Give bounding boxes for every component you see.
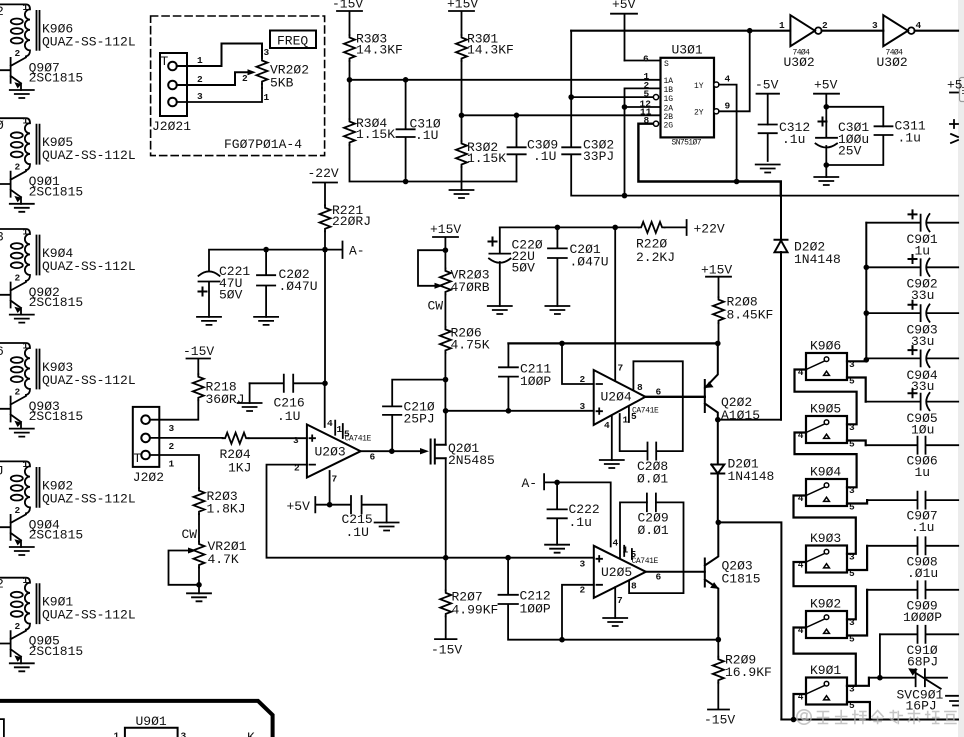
svg-text:4: 4 [725,74,731,85]
ground under U205 [603,618,627,626]
VR203 wiper loop to top [418,250,445,286]
svg-text:1u: 1u [915,243,931,258]
node dot Q203 collector [716,520,722,526]
capacitor C906 1u [866,437,959,481]
node dot pin7/+5V [327,502,333,508]
bubble 1G [653,95,658,100]
transistor Q902 2SC1815 [0,281,83,315]
svg-text:3: 3 [264,47,270,58]
long bus from C302/1B net to right edge [625,195,959,197]
capacitor C208 0.01 labels [637,459,668,487]
resistor R302 1.15K [456,140,506,182]
svg-text:2: 2 [294,463,300,474]
resistor R304 1.15K [344,80,395,145]
wire U205 output to Q203 [646,571,705,573]
relay coil K906 [0,2,136,59]
ground under Q901 [10,204,34,212]
wire inverter2 out to edge [915,30,958,32]
UI scrollbar strip right edge [958,0,964,737]
resistor R218 360RJ [193,374,245,407]
partial electrolytic cap at right edge [950,120,958,143]
svg-text:2: 2 [15,273,21,284]
wire pin7 vertical U204 [614,227,616,381]
svg-text:14.3KF: 14.3KF [356,43,403,58]
ground under C222 [545,545,569,553]
svg-text:.Ø47U: .Ø47U [570,255,609,270]
node dot K901 pin4 on bus [791,717,797,723]
wire S pin row [625,60,661,62]
svg-text:1: 1 [23,2,29,13]
svg-text:K9Ø3: K9Ø3 [810,531,841,546]
svg-text:T: T [161,54,169,69]
svg-text:2: 2 [580,585,586,596]
svg-text:K9Ø2: K9Ø2 [810,596,841,611]
capacitor C222 .1u [548,482,600,544]
svg-text:3: 3 [872,20,878,31]
node dot C222 top [554,480,560,486]
node dot C212 top [505,555,511,561]
svg-text:4: 4 [613,538,619,549]
svg-text:U2Ø4: U2Ø4 [601,390,632,405]
svg-text:2N5485: 2N5485 [448,453,495,468]
svg-text:J: J [0,464,4,479]
svg-text:J2Ø2: J2Ø2 [133,470,164,485]
op-amp U203 CA741E [307,383,376,484]
capacitor C904 33u electrolytic [866,346,958,394]
transistor Q904 2SC1815 [0,513,83,547]
wire U204 output to Q202 [645,396,704,398]
svg-text:3: 3 [197,91,203,102]
op-amp U204 CA741E [580,370,646,425]
A- tap second [522,474,558,491]
svg-text:1: 1 [114,731,120,737]
wire R218 to J202 pin3 [150,400,198,420]
transistor Q202 A1015 [705,343,760,423]
power -15V under R209 [704,683,735,728]
svg-text:.1U: .1U [346,525,369,540]
bottom bus wire [781,719,958,721]
wire 2B bus [462,114,661,116]
connector J2021 [152,53,203,134]
relay contact K906 [806,353,847,380]
transistor Q907 2SC1815 [0,56,83,90]
bubble 2Y output [714,109,719,114]
capacitor C910 68PJ [880,626,958,670]
ground under C301 [814,165,838,185]
wire R206 bottom to C210 node [444,353,446,411]
svg-text:1: 1 [23,227,29,238]
svg-text:QUAZ-SS-112L: QUAZ-SS-112L [42,34,136,49]
IC U901 box [125,714,178,737]
power +5V top [611,0,637,61]
wire K906 pin4 to K905 pin3 [795,370,857,425]
wire K906 pin5 to C905 [847,378,866,402]
wire 2G row [638,124,780,196]
wire U203 -in feedback loop [267,465,446,558]
capacitor C907 .1u [867,492,958,535]
svg-text:1: 1 [23,459,29,470]
bubble 1Y output [714,82,719,87]
svg-text:J2Ø21: J2Ø21 [152,119,191,134]
wire +22V rail top bus [500,226,639,228]
partial +5V symbol at right edge [947,78,963,93]
svg-text:1Øu: 1Øu [911,422,934,437]
IC U301 SN75107 [640,43,715,148]
ground under R302 [450,182,474,199]
svg-text:SN751Ø7: SN751Ø7 [672,139,702,148]
wire U205 pin7 to ground [614,587,616,618]
svg-text:QUAZ-SS-112L: QUAZ-SS-112L [42,373,136,388]
svg-text:5KB: 5KB [270,76,294,91]
node dot C210 bottom [389,448,395,454]
capacitor C210 25PJ [383,380,446,452]
relay contact K905 [806,416,847,443]
svg-text:2: 2 [822,20,828,31]
svg-text:2: 2 [197,74,203,85]
svg-text:2SC1815: 2SC1815 [29,409,84,424]
resistor R204 1KJ [220,433,252,476]
svg-text:1: 1 [169,459,175,470]
svg-text:1: 1 [337,424,343,435]
wire K906 pin3 to cap bus [847,358,866,361]
ground under C312 [756,165,780,173]
node dot 2G/outputs junction [734,179,740,185]
relay coil K902 [0,459,136,516]
ground under C215 [375,523,399,531]
wire J2021 pin2 to VR202 wiper [177,72,248,85]
svg-text:+5: +5 [947,78,963,93]
node dot 2A [622,104,628,110]
svg-text:Ø.Ø1: Ø.Ø1 [638,523,669,538]
svg-text:33u: 33u [911,334,934,349]
svg-text:1.15K: 1.15K [356,127,395,142]
svg-text:2G: 2G [664,122,674,131]
svg-text:25PJ: 25PJ [404,412,435,427]
node dot C310 top [403,77,409,83]
svg-text:+5V: +5V [287,499,311,514]
node dot R206/C210 [443,377,449,383]
dashed boundary box FG07P01A-4 [151,16,325,156]
svg-text:33u: 33u [911,288,934,303]
potentiometer VR201 4.7K [194,539,247,585]
svg-text:1B: 1B [664,86,674,95]
svg-text:2: 2 [0,4,4,19]
node dot C310 bottom [403,179,409,185]
node dot Q202 emitter [715,417,721,423]
wire drain row to U204 +in [446,410,594,412]
transistor Q905 2SC1815 [0,630,83,664]
bubble 2G [653,121,658,126]
svg-text:.1U: .1U [415,128,438,143]
wire top line 1G to inverters [571,30,790,32]
JFET Q201 2N5485 [431,440,495,469]
ground under Q905 [10,663,34,671]
svg-text:6: 6 [656,572,662,583]
node dot C301 top [824,104,830,110]
svg-text:1N4148: 1N4148 [794,252,841,267]
resistor R221 220RJ [320,203,372,231]
svg-text:-22V: -22V [308,166,339,181]
power -5V [755,78,779,125]
svg-text:3: 3 [293,435,299,446]
svg-text:QUAZ-SS-112L: QUAZ-SS-112L [42,491,136,506]
inverter U302 7404 second [872,15,922,70]
C209 loop pin1 to pin8 [620,494,684,594]
node dot VR201 bottom [196,582,202,588]
wire 1A bus to U301 [350,79,661,81]
svg-text:.1u: .1u [569,515,592,530]
svg-text:2SC1815: 2SC1815 [29,528,84,543]
wire A- to U205 pin4 [557,482,611,546]
svg-text:6: 6 [0,344,4,359]
svg-text:.1u: .1u [911,520,934,535]
svg-text:CA741E: CA741E [632,557,659,566]
wire Q203 collector bus right [718,522,781,719]
svg-text:2SC1815: 2SC1815 [29,71,84,86]
power +15V (VR203) [430,222,461,250]
svg-text:1: 1 [779,20,785,31]
transistor Q903 2SC1815 [0,395,83,429]
wire R221 to A- node [324,231,326,249]
potentiometer VR202 5KB [242,47,309,103]
capacitor C211 100P [499,343,551,410]
ground under Q904 [10,547,34,555]
svg-text:2: 2 [242,73,248,84]
node dot C212/U205 -in join [559,637,565,643]
ground under C216 left [238,383,262,411]
capacitor C908 .01u [867,537,958,581]
wire emitter bus [562,639,718,641]
svg-text:1ØØØP: 1ØØØP [903,610,942,625]
wire K901 pin3 to SVC row [847,678,869,686]
svg-text:+22V: +22V [694,222,725,237]
svg-text:1Y: 1Y [694,82,704,91]
wire A- bus left to C221 [209,250,325,271]
relay coil K905 [0,116,136,173]
node dot R208/Q202 collector [715,341,721,347]
wire 1B row [625,88,661,195]
+22V tap [665,220,725,237]
svg-text:CW: CW [428,299,444,314]
node dot C309 top on 2B bus [514,113,520,119]
svg-text:4.75K: 4.75K [451,338,490,353]
wire K904 pin4 to K903 pin3 [794,496,856,554]
relay coil K901 [0,575,136,632]
ground under Q903 [10,429,34,437]
wire Q201 drain up [445,411,447,445]
relay contact K902 [806,611,847,638]
watermark juejin community [797,710,956,724]
svg-text:7: 7 [332,474,338,485]
svg-text:QUAZ-SS-112L: QUAZ-SS-112L [42,608,136,623]
wire U204 -in to bus [562,343,594,384]
relay contact K901 [806,678,847,705]
capacitor C220 22U 50V electrolytic [489,227,543,306]
svg-text:U3Ø1: U3Ø1 [672,43,703,58]
wire inverter1 out to inverter2 in [822,30,884,32]
node dot 1B/2A net to bus [622,193,628,199]
svg-text:+15V: +15V [701,263,732,278]
resistor R220 2.2KJ [636,222,675,265]
svg-text:K: K [247,730,255,737]
wire J202 pin1 to R203 [150,455,199,488]
capacitor C903 33u electrolytic [866,301,958,349]
capacitor C902 33u electrolytic [866,255,958,303]
capacitor C201 .047U [548,227,609,306]
svg-text:+5V: +5V [612,0,636,12]
svg-text:68PJ: 68PJ [907,654,938,669]
svg-text:2Y: 2Y [694,109,704,118]
wiper arrowhead VR201 [188,548,197,554]
arrowhead into Q201 gate [420,448,429,454]
svg-text:2: 2 [15,48,21,59]
wire 1Y to 2Y join [719,85,737,112]
wire R204 to U203 +in [249,437,307,439]
svg-text:A-: A- [522,476,538,491]
svg-text:CA741E: CA741E [632,407,659,416]
svg-text:K9Ø4: K9Ø4 [810,464,841,479]
power +15V top [447,0,478,35]
resistor R209 16.9KF [713,640,772,683]
resistor R208 8.45KF [713,295,773,324]
svg-text:1ØØP: 1ØØP [520,374,551,389]
wire K903 pin4 to K902 pin3 [794,562,856,619]
svg-text:K9Ø5: K9Ø5 [810,401,841,416]
svg-text:8: 8 [637,382,643,393]
resistor R203 1.8KJ [194,488,246,516]
capacitor C221 47U 50V electrolytic [199,264,251,317]
svg-text:1: 1 [23,116,29,127]
svg-text:47ØRB: 47ØRB [451,280,490,295]
capacitor C212 100P [499,558,563,640]
svg-text:14.3KF: 14.3KF [467,43,514,58]
node dot inverter input / 1Y2Y [747,28,753,34]
inverter U302 7404 first [779,15,828,70]
wire U205 -in loop [562,585,594,640]
wire A- rail down [324,250,326,384]
svg-text:K9Ø6: K9Ø6 [810,338,841,353]
thick border of lower block [0,701,273,737]
svg-text:Ø.Ø1: Ø.Ø1 [637,472,668,487]
node dot Q201 drain row [443,408,449,414]
svg-text:1G: 1G [664,95,674,104]
svg-text:+15V: +15V [447,0,478,12]
svg-text:S: S [664,60,669,69]
svg-text:1.15K: 1.15K [467,151,506,166]
node dot C201 top [555,225,561,231]
UI scrollbar button [960,78,964,102]
wire K902 pin5 to C909 [847,590,867,636]
power -15V under R207 [431,616,462,657]
svg-text:.1u: .1u [782,132,805,147]
svg-text:22ØRJ: 22ØRJ [332,214,371,229]
svg-text:6: 6 [643,54,649,65]
svg-text:1u: 1u [915,465,931,480]
U204 pin8 C208 loop [620,361,683,459]
svg-text:33u: 33u [911,379,934,394]
node dot R303/R304 junction [347,77,353,83]
fragment box bottom-left corner [0,719,4,737]
capacitor C905 10u electrolytic [866,389,959,437]
svg-text:2SC1815: 2SC1815 [29,184,84,199]
wire 2Y up to top line [719,31,750,112]
svg-text:QUAZ-SS-112L: QUAZ-SS-112L [42,259,136,274]
svg-text:8: 8 [631,581,637,592]
resistor R206 4.75K [440,326,490,353]
node dot VR203 top [443,247,449,253]
node dot -in bus [559,341,565,347]
wire K904 pin5 to C907 [847,500,867,503]
node dot Q203 emitter bus [716,637,722,643]
svg-text:-15V: -15V [704,713,735,728]
wire R303 to 1A bus [349,61,351,80]
svg-text:3: 3 [181,731,187,737]
node dot Q201 source on bus [443,555,449,561]
wire K901 pin4 to bottom bus [794,694,807,720]
svg-text:1: 1 [197,55,203,66]
svg-text:QUAZ-SS-112L: QUAZ-SS-112L [42,148,136,163]
wire 1Y2Y chain down to 2G bus [736,111,738,181]
svg-text:6: 6 [656,387,662,398]
wire U204 pin4 to ground [611,415,613,460]
diode D202 1N4148 [775,196,841,420]
svg-text:1N4148: 1N4148 [728,469,775,484]
wire output bus R208 row [508,342,717,344]
wire C910 drop to SVC row [879,634,881,677]
svg-text:2: 2 [15,162,21,173]
wire cap bus C901-C904 [865,223,867,359]
svg-text:25V: 25V [838,144,862,159]
svg-text:1: 1 [23,575,29,586]
capacitor C309 .1U [508,115,559,181]
svg-text:1A: 1A [664,77,674,86]
wiper arrowhead VR202 [248,69,257,75]
partial ground at right edge [946,696,958,706]
FREQ label box [270,31,316,49]
svg-text:4.7K: 4.7K [208,552,239,567]
svg-text:8.45KF: 8.45KF [727,308,774,323]
capacitor C312 .1u [759,120,811,161]
svg-text:CA741E: CA741E [345,435,372,444]
svg-text:4: 4 [916,20,922,31]
resistor R301 14.3KF [456,32,514,62]
svg-text:2: 2 [15,621,21,632]
wire K902 pin4 to K901 pin3 [794,628,856,686]
svg-text:2SC1815: 2SC1815 [29,295,84,310]
transistor Q901 2SC1815 [0,170,83,204]
svg-text:-15V: -15V [183,344,214,359]
wire K903 pin5 to C908 [847,546,867,570]
relay contact K904 [806,479,847,506]
svg-text:2: 2 [15,387,21,398]
ground under VR201 [187,585,211,602]
svg-text:.1U: .1U [277,409,300,424]
potentiometer VR203 470RB [440,250,490,327]
capacitor C901 1u electrolytic [866,210,958,258]
wire R203 to VR201 [198,514,200,541]
svg-text:2: 2 [169,441,175,452]
resistor R207 4.99KF [440,558,498,618]
svg-text:1: 1 [23,341,29,352]
node dot A- junction [322,247,328,253]
wire U203 output [361,450,421,452]
svg-text:33PJ: 33PJ [583,149,614,164]
wire feedback bus to U205 +in [446,557,594,559]
ground under U204 [600,460,624,468]
wire Q201 source down to feedback bus [445,458,447,557]
svg-text:7: 7 [617,595,623,606]
svg-text:2: 2 [15,505,21,516]
